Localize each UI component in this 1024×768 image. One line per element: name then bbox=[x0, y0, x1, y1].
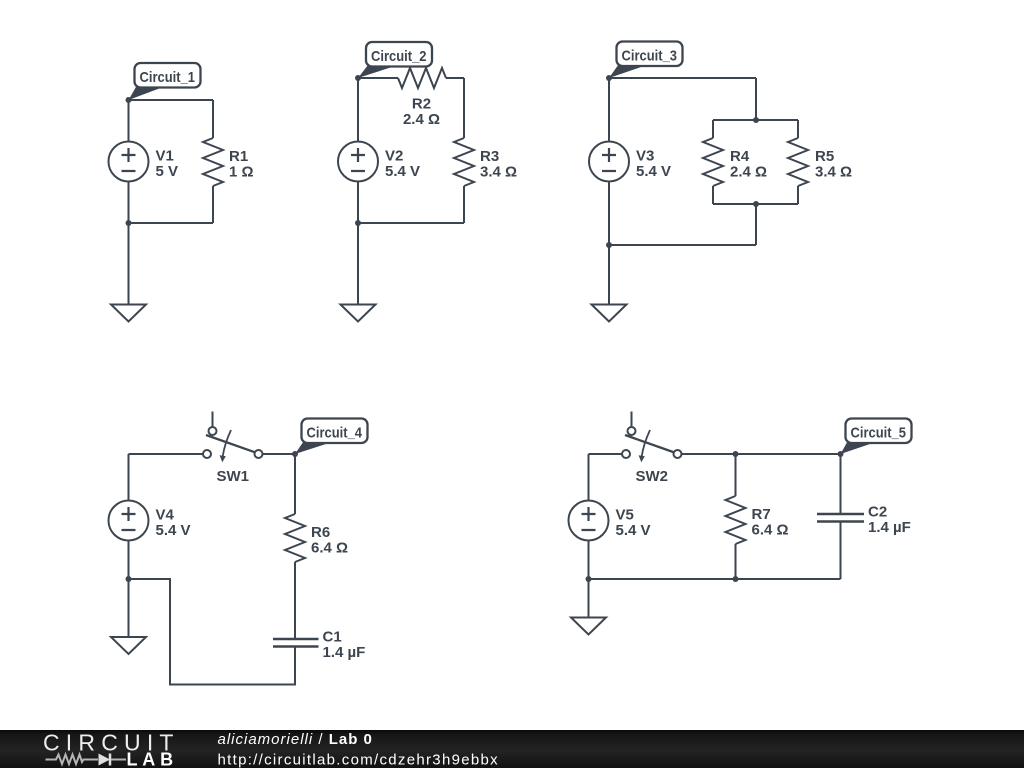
node c1 top bbox=[126, 97, 132, 103]
label V1 value bbox=[156, 148, 179, 181]
net label callout Circuit_2 bbox=[358, 42, 432, 78]
svg-text:5 V: 5 V bbox=[156, 163, 179, 180]
voltage source V3 bbox=[589, 142, 629, 182]
wire c3 parallel top bar bbox=[713, 119, 798, 121]
svg-text:5.4 V: 5.4 V bbox=[385, 163, 420, 180]
svg-text:Circuit_4: Circuit_4 bbox=[307, 425, 363, 442]
wire c3 parallel bottom bar bbox=[713, 203, 798, 205]
svg-text:R6: R6 bbox=[311, 524, 330, 541]
CircuitLab logo resistor-diode squiggle bbox=[46, 754, 127, 766]
net label callout Circuit_1 bbox=[129, 63, 201, 100]
wire c4 R6 to C1 bbox=[294, 562, 296, 638]
resistor R1 bbox=[203, 138, 223, 186]
voltage source V5 bbox=[569, 501, 609, 541]
svg-text:SW1: SW1 bbox=[216, 468, 249, 485]
svg-text:Circuit_1: Circuit_1 bbox=[140, 69, 196, 86]
node c5 top right node bbox=[838, 451, 844, 457]
wire c2 right bottom bbox=[463, 186, 465, 223]
node c3 parallel top junction bbox=[753, 117, 759, 123]
svg-text:V5: V5 bbox=[616, 507, 634, 524]
wire c1 left bottom bbox=[128, 182, 130, 223]
label V5 value bbox=[616, 507, 651, 540]
wire c2 left bottom bbox=[357, 182, 359, 223]
svg-text:2.4 Ω: 2.4 Ω bbox=[730, 164, 767, 181]
svg-text:6.4 Ω: 6.4 Ω bbox=[752, 522, 789, 539]
wire c5 V5 bottom lead bbox=[588, 541, 590, 579]
circuit 3 group bbox=[589, 42, 852, 322]
ground (circuit 3) bbox=[592, 305, 627, 322]
net label callout Circuit_5 bbox=[841, 419, 912, 455]
svg-text:R2: R2 bbox=[412, 96, 431, 113]
resistor R3 bbox=[454, 138, 474, 186]
wire c1 ground stem bbox=[128, 223, 130, 305]
svg-text:3.4 Ω: 3.4 Ω bbox=[815, 164, 852, 181]
node c2 top bbox=[355, 75, 361, 81]
svg-text:R4: R4 bbox=[730, 148, 750, 165]
svg-text:C1: C1 bbox=[323, 629, 342, 646]
svg-text:V2: V2 bbox=[385, 148, 403, 165]
svg-text:LAB: LAB bbox=[127, 750, 178, 768]
wire c4 to switch bbox=[129, 453, 204, 455]
label R1 value bbox=[229, 148, 254, 181]
node c5 R7 top junction bbox=[733, 451, 739, 457]
wire c5 C2 top lead bbox=[840, 454, 842, 513]
wire c3 R5 bottom lead bbox=[797, 186, 799, 204]
wire c3 bottom rail bbox=[609, 244, 756, 246]
svg-text:SW2: SW2 bbox=[635, 468, 668, 485]
wire c2 bottom rail bbox=[358, 222, 464, 224]
wire c3 R4 top lead bbox=[712, 120, 714, 138]
svg-text:1.4 µF: 1.4 µF bbox=[868, 519, 911, 536]
svg-text:1 Ω: 1 Ω bbox=[229, 164, 254, 181]
wire c1 bottom rail bbox=[129, 222, 214, 224]
capacitor C1 bbox=[273, 639, 319, 647]
footer bar bbox=[0, 730, 1024, 768]
svg-text:3.4 Ω: 3.4 Ω bbox=[480, 164, 517, 181]
node c2 bottom bbox=[355, 220, 361, 226]
wire c3 R5 top lead bbox=[797, 120, 799, 138]
wire c1 right bottom bbox=[212, 186, 214, 223]
wire c4 V4 bottom lead bbox=[128, 541, 130, 579]
ground (circuit 4) bbox=[111, 637, 146, 654]
switch SW1 bbox=[203, 412, 263, 463]
svg-text:5.4 V: 5.4 V bbox=[636, 163, 671, 180]
wire c5 R7 top lead bbox=[735, 454, 737, 496]
svg-text:http://circuitlab.com/cdzehr3h: http://circuitlab.com/cdzehr3h9ebbx bbox=[218, 752, 499, 768]
wire c3 R4 bottom lead bbox=[712, 186, 714, 204]
circuit 4 group bbox=[109, 412, 368, 685]
wire c2 right top bbox=[463, 78, 465, 138]
wire c5 left riser bbox=[588, 454, 590, 500]
resistor R7 bbox=[726, 496, 746, 544]
wire c5 R7 bottom lead bbox=[735, 544, 737, 579]
wire c3 ground stem bbox=[608, 245, 610, 305]
circuit 2 group bbox=[338, 42, 517, 322]
node c3 parallel bottom junction bbox=[753, 201, 759, 207]
label R4 value bbox=[730, 148, 767, 181]
node c1 bottom bbox=[126, 220, 132, 226]
wire c4 left riser bbox=[128, 454, 130, 500]
svg-text:2.4 Ω: 2.4 Ω bbox=[403, 111, 440, 128]
node c4 bottom node bbox=[126, 576, 132, 582]
node c5 bottom left node bbox=[586, 576, 592, 582]
wire c3 rise from parallel bbox=[755, 204, 757, 245]
label R5 value bbox=[815, 148, 852, 181]
svg-text:R5: R5 bbox=[815, 148, 834, 165]
label R2 value bbox=[403, 96, 440, 129]
wire c2 top rail left bbox=[358, 77, 398, 79]
node c3 top bbox=[606, 75, 612, 81]
label V2 value bbox=[385, 148, 420, 181]
switch SW2 bbox=[622, 412, 682, 463]
wire c2 top rail right bbox=[446, 77, 464, 79]
resistor R5 bbox=[788, 138, 808, 186]
svg-text:5.4 V: 5.4 V bbox=[616, 522, 651, 539]
label R7 value bbox=[752, 506, 789, 539]
wire c3 left top bbox=[608, 78, 610, 141]
wire c3 left bottom bbox=[608, 182, 610, 245]
wire c2 ground stem bbox=[357, 223, 359, 305]
wire c5 ground stem bbox=[588, 579, 590, 618]
wire c1 left top bbox=[128, 100, 130, 141]
wire c5 bottom rail bbox=[589, 578, 841, 580]
circuit 1 group bbox=[109, 63, 254, 322]
resistor R2 bbox=[398, 68, 446, 88]
net label callout Circuit_4 bbox=[295, 419, 368, 455]
resistor R6 bbox=[285, 514, 305, 562]
label C1 value bbox=[323, 629, 366, 662]
svg-text:Circuit_5: Circuit_5 bbox=[851, 425, 907, 442]
voltage source V1 bbox=[109, 142, 149, 182]
wire c5 top rail bbox=[682, 453, 841, 455]
node c4 top node bbox=[292, 451, 298, 457]
svg-text:1.4 µF: 1.4 µF bbox=[323, 644, 366, 661]
svg-text:V4: V4 bbox=[156, 507, 175, 524]
svg-text:R1: R1 bbox=[229, 148, 248, 165]
svg-text:6.4 Ω: 6.4 Ω bbox=[311, 540, 348, 557]
resistor R4 bbox=[703, 138, 723, 186]
circuit 5 group bbox=[569, 412, 912, 635]
voltage source V2 bbox=[338, 142, 378, 182]
wire c5 to switch bbox=[589, 453, 623, 455]
node c3 bottom bbox=[606, 242, 612, 248]
svg-text:5.4 V: 5.4 V bbox=[156, 522, 191, 539]
node c5 R7 bottom junction bbox=[733, 576, 739, 582]
wire c1 right top bbox=[212, 100, 214, 138]
ground (circuit 1) bbox=[111, 305, 146, 322]
wire c4 return path bbox=[129, 579, 296, 685]
svg-text:V1: V1 bbox=[156, 148, 174, 165]
wire c3 drop to parallel bbox=[755, 78, 757, 120]
svg-text:Circuit_2: Circuit_2 bbox=[371, 48, 427, 65]
voltage source V4 bbox=[109, 501, 149, 541]
wire c5 C2 bottom lead bbox=[840, 522, 842, 579]
wire c4 ground stem bbox=[128, 579, 130, 637]
wire c4 down to R6 bbox=[294, 454, 296, 514]
label V4 value bbox=[156, 507, 191, 540]
net label callout Circuit_3 bbox=[609, 42, 683, 79]
wire c2 left top bbox=[357, 78, 359, 141]
ground (circuit 5) bbox=[571, 618, 606, 635]
svg-text:C2: C2 bbox=[868, 504, 887, 521]
svg-text:R3: R3 bbox=[480, 148, 499, 165]
ground (circuit 2) bbox=[341, 305, 376, 322]
svg-text:Circuit_3: Circuit_3 bbox=[622, 48, 678, 65]
wire c3 top rail bbox=[609, 77, 756, 79]
svg-text:V3: V3 bbox=[636, 148, 654, 165]
wire c1 top rail bbox=[129, 99, 214, 101]
capacitor C2 bbox=[817, 514, 864, 522]
label R3 value bbox=[480, 148, 517, 181]
label C2 value bbox=[868, 504, 911, 537]
svg-text:aliciamorielli / Lab 0: aliciamorielli / Lab 0 bbox=[218, 731, 373, 748]
wire c4 switch to node bbox=[263, 453, 296, 455]
label R6 value bbox=[311, 524, 348, 557]
svg-text:R7: R7 bbox=[752, 506, 771, 523]
label V3 value bbox=[636, 148, 671, 181]
